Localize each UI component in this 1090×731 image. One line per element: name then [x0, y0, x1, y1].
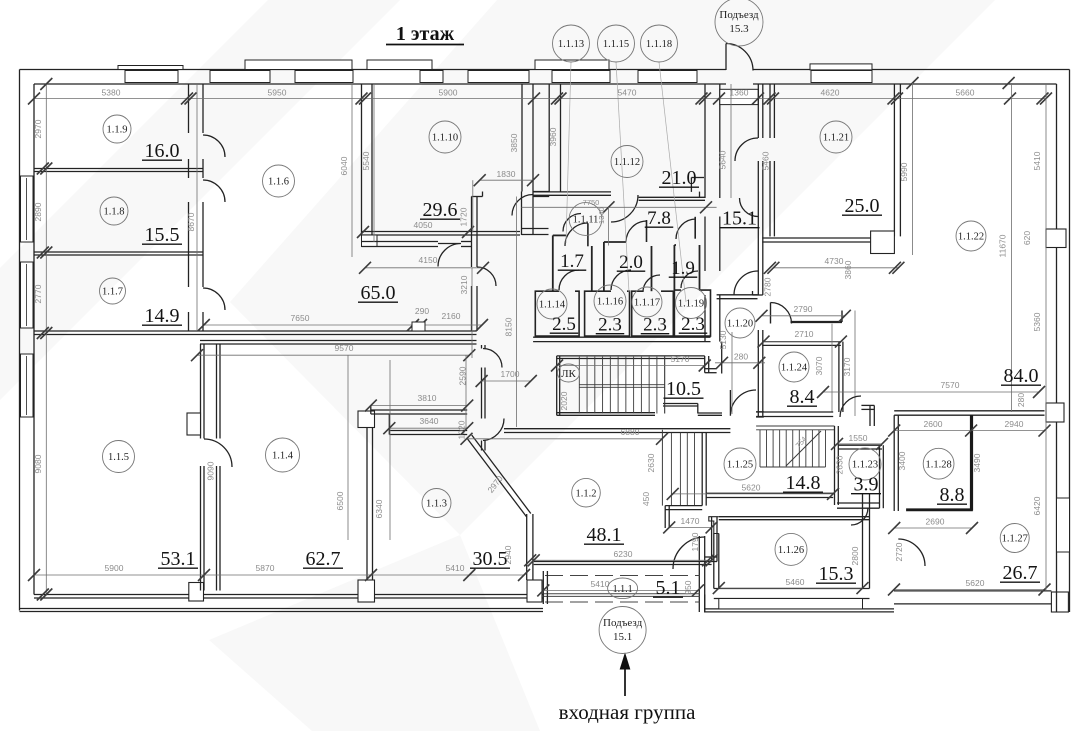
- svg-text:29.6: 29.6: [423, 199, 458, 221]
- svg-text:4150: 4150: [419, 255, 438, 265]
- svg-text:5990: 5990: [899, 162, 909, 181]
- svg-text:1.7: 1.7: [560, 251, 584, 272]
- svg-text:1.1.14: 1.1.14: [539, 300, 566, 311]
- top wall of 2.5 zone: [522, 228, 549, 230]
- watermark band 2: [230, 0, 995, 535]
- svg-text:6040: 6040: [339, 156, 349, 175]
- jog right of door: [869, 405, 871, 426]
- door 1.1.8: [203, 180, 225, 202]
- svg-text:5460: 5460: [761, 151, 771, 170]
- wall 1.1.6/1.1.10: [361, 84, 363, 235]
- svg-text:входная группа: входная группа: [559, 700, 696, 724]
- wall 1.1.5/1.1.4: [200, 344, 202, 439]
- svg-text:5950: 5950: [268, 88, 287, 98]
- room circle 1.1.7: [100, 278, 126, 304]
- pilaster on wall y331: [412, 322, 425, 331]
- door 2.0: [626, 221, 647, 242]
- dim 5410 porch: [543, 589, 698, 591]
- leader lines: [566, 62, 571, 243]
- svg-text:8.8: 8.8: [940, 484, 965, 506]
- wall 1.1.12 left: [548, 84, 550, 192]
- room circle 1.1.22: [956, 221, 986, 251]
- door 2.3a: [611, 270, 631, 290]
- top dim chain: [34, 98, 1046, 100]
- svg-text:3640: 3640: [420, 416, 439, 426]
- svg-text:8150: 8150: [504, 317, 514, 336]
- svg-text:30.5: 30.5: [473, 548, 508, 570]
- svg-text:2720: 2720: [894, 542, 904, 561]
- right wall pilaster upper: [1046, 229, 1066, 248]
- svg-text:1.1.12: 1.1.12: [614, 157, 640, 168]
- narrow steps bottom wall: [665, 505, 702, 507]
- door corridor->rooms: [740, 198, 759, 217]
- bottom dim chain: [34, 574, 524, 576]
- wall 48.1 bottom: [534, 561, 712, 563]
- svg-text:950: 950: [683, 580, 693, 594]
- dim 1700: [482, 380, 531, 382]
- svg-text:3490: 3490: [972, 453, 982, 472]
- thick wall right of door: [791, 321, 843, 323]
- svg-text:2890: 2890: [33, 202, 43, 221]
- wall top 1.1.28: [894, 410, 1044, 412]
- door 1.1.24 (leaf+arc): [770, 303, 772, 324]
- stair diagonal: [786, 431, 821, 466]
- stair 1.1.25 treads: [759, 430, 761, 467]
- door 2.5: [559, 270, 579, 290]
- svg-text:2630: 2630: [646, 453, 656, 472]
- svg-text:8.4: 8.4: [790, 386, 815, 408]
- svg-text:3860: 3860: [843, 260, 853, 279]
- svg-text:15.1: 15.1: [613, 631, 632, 643]
- svg-text:2.3: 2.3: [681, 314, 705, 335]
- svg-text:1.1.16: 1.1.16: [597, 297, 623, 308]
- svg-text:25.0: 25.0: [845, 195, 880, 217]
- vertical dims misc: [196, 84, 198, 331]
- wall 1.1.26 left: [713, 534, 715, 589]
- junction box top: [358, 411, 375, 428]
- room 2.5 box: [535, 291, 579, 336]
- shaft on wall 1.1.5: [187, 413, 201, 435]
- door 1.1.23: [851, 508, 868, 525]
- top wall raised sills (outside): [118, 66, 183, 70]
- svg-text:1.1.25: 1.1.25: [727, 460, 753, 471]
- svg-text:ЛК: ЛК: [561, 368, 576, 380]
- svg-text:3850: 3850: [509, 133, 519, 152]
- room circle 1.1.14: [537, 289, 567, 319]
- door 1.1.9: [203, 135, 225, 157]
- entrance door 15.3: [725, 44, 727, 71]
- svg-text:5460: 5460: [786, 577, 805, 587]
- exterior top wall outer line: [20, 69, 727, 71]
- door corridor top arc: [512, 195, 533, 216]
- svg-text:2.0: 2.0: [619, 252, 643, 273]
- svg-text:15.5: 15.5: [145, 224, 180, 246]
- room circle 1.1.28: [923, 448, 954, 479]
- dim 5620 bottom right: [894, 589, 1045, 591]
- svg-text:3070: 3070: [814, 356, 824, 375]
- room circle 1.1.23: [849, 448, 881, 480]
- wall 1.1.23 left: [834, 426, 836, 505]
- svg-text:280: 280: [734, 352, 748, 362]
- wall 1.1.21 bottom: [762, 237, 894, 239]
- door 2.3c: [681, 271, 698, 288]
- svg-text:14.8: 14.8: [786, 472, 821, 494]
- svg-text:2710: 2710: [795, 329, 814, 339]
- diagonal wall 1.1.3: [467, 439, 527, 518]
- room circle 1.1.12: [611, 146, 643, 178]
- door corridor->1.1.20: [734, 271, 758, 295]
- svg-text:1360: 1360: [730, 88, 749, 98]
- door 1.1.6 top: [438, 244, 461, 267]
- svg-text:5470: 5470: [618, 88, 637, 98]
- wall x702: [701, 433, 703, 506]
- LK bottom wall: [557, 412, 655, 414]
- room circle 1.1.4: [266, 438, 300, 472]
- svg-text:2970: 2970: [33, 119, 43, 138]
- dim 9570: [197, 354, 469, 356]
- dim 5620 (1.1.25): [673, 493, 833, 495]
- svg-text:1.1.9: 1.1.9: [107, 125, 128, 136]
- wall 1.1.9/1.1.8: [34, 168, 203, 170]
- room circle 1.1.3: [422, 489, 451, 518]
- svg-text:1700: 1700: [501, 369, 520, 379]
- wall 1.1.26 right: [862, 493, 864, 588]
- pier box bottom of wall 1.1.5/1.1.4: [189, 583, 204, 602]
- svg-text:6230: 6230: [614, 549, 633, 559]
- entrance arrow: [624, 666, 626, 696]
- svg-text:3210: 3210: [459, 275, 469, 294]
- svg-text:1.1.21: 1.1.21: [823, 133, 849, 144]
- door 1.1.6 right: [477, 267, 496, 286]
- wall 1.1.21 right: [893, 84, 895, 236]
- wall 1.1.4/1.1.3: [366, 414, 368, 580]
- svg-text:5360: 5360: [1032, 312, 1042, 331]
- svg-text:16.0: 16.0: [145, 140, 180, 162]
- vertical wall right of 1.1.9-7: [188, 84, 190, 133]
- dim 4050: [357, 226, 369, 238]
- door 1.9: [676, 219, 696, 239]
- svg-text:1.1.6: 1.1.6: [268, 177, 289, 188]
- room circle 1.1.25: [724, 448, 756, 480]
- wall right of 1.1.3: [526, 514, 528, 580]
- LK stair treads: [578, 357, 580, 414]
- svg-text:7.8: 7.8: [647, 208, 671, 229]
- wall 1.1.12 bottom: [533, 191, 611, 193]
- dim 2600/2940: [894, 430, 1044, 432]
- exterior left wall: [19, 70, 21, 611]
- room 2.3b box: [632, 291, 674, 336]
- room circle 1.1.27: [1000, 524, 1029, 553]
- dim 1830: [480, 179, 533, 181]
- door 1.1.7: [203, 288, 225, 310]
- dim 5460: [719, 587, 863, 589]
- wall top of 1.1.3: [371, 409, 467, 411]
- room circle 1.1.24: [779, 352, 809, 382]
- room circle 1.1.20: [725, 308, 755, 338]
- dim 4150: [365, 267, 483, 269]
- corridor 15.1 left wall: [704, 84, 706, 198]
- svg-text:1720: 1720: [459, 207, 469, 226]
- svg-text:1.1.15: 1.1.15: [603, 39, 629, 50]
- svg-text:2.3: 2.3: [643, 315, 667, 336]
- svg-text:21.0: 21.0: [662, 167, 697, 189]
- bottom wall small rooms: [533, 336, 710, 338]
- left wall windows: [21, 176, 34, 242]
- svg-text:3.9: 3.9: [854, 474, 879, 496]
- wall 1.1.6 right (corridor): [471, 197, 473, 268]
- svg-text:84.0: 84.0: [1004, 365, 1039, 387]
- svg-text:2.5: 2.5: [552, 314, 576, 335]
- long wall y412 (8.4 bottom): [756, 411, 833, 413]
- svg-text:53.1: 53.1: [161, 548, 196, 570]
- svg-text:Подъезд: Подъезд: [719, 9, 759, 21]
- duct box 1.1.21: [871, 231, 895, 254]
- svg-text:9090: 9090: [206, 461, 216, 480]
- svg-text:48.1: 48.1: [587, 524, 622, 546]
- room circle 1.1.16: [594, 285, 626, 317]
- right wall window: [1057, 498, 1070, 552]
- svg-text:1.1.17: 1.1.17: [634, 298, 660, 309]
- wall 1.1.28 right (thick): [970, 415, 973, 510]
- wall 1.1.10 bottom: [362, 231, 521, 233]
- long wall y430: [504, 428, 730, 430]
- narrow steps: [661, 430, 663, 506]
- svg-text:2590: 2590: [458, 366, 468, 385]
- svg-text:1830: 1830: [497, 169, 516, 179]
- door near 1.1.11: [563, 214, 581, 232]
- door corridor->1.1.21: [735, 138, 758, 161]
- svg-text:8670: 8670: [186, 212, 196, 231]
- wall 1.1.26 top: [719, 516, 870, 518]
- wall y431 left segment: [389, 430, 467, 432]
- room circle 1.1.21: [820, 121, 852, 153]
- svg-text:10.5: 10.5: [666, 378, 701, 400]
- svg-text:7650: 7650: [291, 313, 310, 323]
- LK landing right step: [663, 403, 698, 405]
- bottom wall (left segment): [34, 594, 543, 596]
- svg-text:1.1.18: 1.1.18: [646, 39, 672, 50]
- wall left of 1.1.2: [481, 345, 483, 349]
- room circle 1.1.13: [553, 25, 590, 62]
- dim 6880: [467, 438, 663, 440]
- svg-text:6880: 6880: [621, 427, 640, 437]
- svg-text:1.1.2: 1.1.2: [576, 488, 597, 499]
- door 1.1.3 lower: [483, 419, 504, 441]
- svg-text:9080: 9080: [33, 454, 43, 473]
- svg-text:1.1.4: 1.1.4: [272, 451, 294, 462]
- bottom wall right segment: [894, 590, 1051, 592]
- svg-text:2160: 2160: [442, 311, 461, 321]
- svg-text:5640: 5640: [718, 150, 728, 169]
- room 2.3c box: [674, 290, 710, 336]
- corridor right wall: [757, 84, 759, 138]
- svg-text:65.0: 65.0: [361, 282, 396, 304]
- svg-text:7570: 7570: [941, 380, 960, 390]
- entrance circle 15.3: [715, 0, 763, 46]
- wall right of porch: [698, 536, 700, 612]
- ticks on top inner wall right: [907, 77, 919, 89]
- svg-text:1.1.22: 1.1.22: [958, 232, 984, 243]
- svg-text:5660: 5660: [956, 88, 975, 98]
- wall y241 with door: [362, 241, 439, 243]
- wall 1.1.23 top: [838, 444, 882, 446]
- svg-text:1.1.3: 1.1.3: [426, 499, 447, 510]
- svg-text:1.1.1: 1.1.1: [613, 584, 633, 595]
- svg-text:2940: 2940: [1005, 419, 1024, 429]
- exterior right wall: [1056, 84, 1058, 612]
- svg-text:1.9: 1.9: [671, 258, 695, 279]
- svg-text:5900: 5900: [439, 88, 458, 98]
- svg-text:4050: 4050: [414, 220, 433, 230]
- room circle 1.1.15: [598, 25, 635, 62]
- dim 6230: [534, 559, 712, 561]
- svg-text:5900: 5900: [105, 563, 124, 573]
- dim 3810: [371, 405, 467, 407]
- svg-text:1.1.19: 1.1.19: [678, 299, 704, 310]
- svg-text:1.1.7: 1.1.7: [102, 287, 123, 298]
- svg-text:6500: 6500: [335, 491, 345, 510]
- dim 2690: [894, 527, 972, 529]
- bottom wall segment under 1.1.26: [714, 588, 870, 590]
- svg-text:5870: 5870: [256, 563, 275, 573]
- long wall y331 (1.1.7,1.1.6 bottom): [34, 330, 477, 332]
- svg-text:2770: 2770: [33, 284, 43, 303]
- room circle 1.1.10: [429, 121, 461, 153]
- svg-text:5.1: 5.1: [656, 577, 681, 599]
- svg-text:5410: 5410: [591, 579, 610, 589]
- stair 1.1.25 bottom wall: [706, 492, 833, 494]
- dim 5170: [557, 365, 705, 367]
- wall 1.1.23 bottom: [837, 502, 880, 504]
- svg-text:1.1.10: 1.1.10: [432, 133, 458, 144]
- watermark band 1: [0, 0, 400, 400]
- room circle 1.1.8: [100, 197, 128, 225]
- svg-text:9570: 9570: [335, 343, 354, 353]
- svg-text:4730: 4730: [825, 256, 844, 266]
- junction box bottom: [358, 580, 375, 602]
- wall 1.1.8/1.1.7: [34, 251, 203, 253]
- door 1.1.2->1.1.26: [673, 537, 705, 569]
- svg-text:3400: 3400: [897, 451, 907, 470]
- svg-text:5620: 5620: [742, 483, 761, 493]
- dim 7650 row: [204, 324, 482, 326]
- room circle 1.1.1: [608, 578, 638, 599]
- dim 1470: [669, 526, 711, 528]
- top wall window blocks: [125, 71, 178, 83]
- svg-text:1.1.26: 1.1.26: [778, 545, 804, 556]
- door 1.1.3 upper: [483, 349, 502, 368]
- room 1.9 walls: [673, 245, 675, 290]
- entrance circle 15.1: [599, 607, 646, 654]
- door 1.1.28: [898, 539, 925, 566]
- LK landing divider: [579, 384, 664, 386]
- jog at 1.1.26 door: [709, 517, 719, 534]
- corridor bottom wall: [717, 294, 758, 296]
- svg-text:1.1.28: 1.1.28: [925, 459, 951, 470]
- svg-text:5130: 5130: [718, 330, 728, 349]
- room circle 1.1.19: [676, 288, 707, 319]
- room circle 1.1.17: [632, 287, 662, 317]
- svg-text:1.1.20: 1.1.20: [727, 319, 753, 330]
- svg-text:62.7: 62.7: [306, 548, 341, 570]
- left dim chain: [45, 84, 47, 595]
- svg-text:15.3: 15.3: [729, 23, 749, 35]
- LK label ellipse: [558, 364, 580, 382]
- room 2.3a box: [585, 291, 630, 336]
- svg-text:1.1.27: 1.1.27: [1002, 534, 1028, 545]
- svg-text:26.7: 26.7: [1003, 562, 1038, 584]
- watermark band 3: [209, 535, 540, 731]
- svg-text:280: 280: [1016, 393, 1026, 407]
- svg-text:1.1.5: 1.1.5: [108, 452, 129, 463]
- svg-text:5410: 5410: [446, 563, 465, 573]
- dim 2790: [762, 315, 845, 317]
- svg-text:3170: 3170: [842, 357, 852, 376]
- wall 1.1.28 bottom: [906, 508, 973, 511]
- svg-text:290: 290: [415, 306, 429, 316]
- porch bottom corner: [704, 595, 706, 613]
- svg-text:6420: 6420: [1032, 496, 1042, 515]
- step verticals 1.1.3 corner: [370, 406, 372, 414]
- corridor 1360 block: [720, 89, 759, 104]
- svg-text:1.1.13: 1.1.13: [558, 39, 584, 50]
- room circle 1.1.11: [569, 203, 602, 236]
- svg-text:2790: 2790: [794, 304, 813, 314]
- right wall pilaster lower: [1046, 403, 1064, 422]
- room 1.7 walls: [552, 235, 554, 291]
- svg-text:5540: 5540: [361, 151, 371, 170]
- dim 3640: [389, 427, 467, 429]
- svg-text:5170: 5170: [671, 354, 690, 364]
- svg-text:2600: 2600: [924, 419, 943, 429]
- exterior top wall inner line: [34, 83, 726, 85]
- LK stair top wall: [557, 355, 705, 357]
- room circle 1.1.2: [572, 478, 601, 507]
- wall 1.1.24 top: [762, 341, 841, 343]
- svg-text:2780: 2780: [763, 277, 773, 296]
- notch below wall: [362, 235, 378, 247]
- dim 7570: [823, 391, 1039, 393]
- room circle 1.1.18: [641, 25, 678, 62]
- door 1.1.12: [611, 195, 638, 222]
- dim 2710: [764, 341, 841, 343]
- wall 1.1.28 left: [893, 415, 895, 511]
- svg-text:3810: 3810: [418, 393, 437, 403]
- wall 1.1.10 right: [521, 84, 523, 192]
- room circle 1.1.6: [263, 165, 295, 197]
- svg-text:1.1.11: 1.1.11: [573, 215, 599, 226]
- room circle 1.1.26: [775, 533, 807, 565]
- wall 1.1.23 right: [879, 445, 881, 508]
- door 2.3b: [643, 275, 660, 292]
- dim lines 3070/3170: [831, 324, 833, 412]
- svg-text:6340: 6340: [374, 499, 384, 518]
- svg-text:5380: 5380: [102, 88, 121, 98]
- wall stub x533-549: [533, 191, 549, 193]
- svg-text:1470: 1470: [681, 516, 700, 526]
- dims small rooms: [522, 206, 717, 208]
- room 2.0 walls: [603, 242, 605, 291]
- dim 280 small: [715, 362, 765, 364]
- svg-text:1790: 1790: [690, 532, 700, 551]
- svg-text:1.1.8: 1.1.8: [104, 207, 125, 218]
- door 84.0 area: [840, 396, 861, 417]
- LK left wall: [556, 356, 558, 415]
- svg-text:11670: 11670: [998, 234, 1008, 257]
- room circle 1.1.5: [103, 441, 135, 473]
- svg-text:5410: 5410: [1032, 151, 1042, 170]
- door to LK landing: [730, 390, 756, 416]
